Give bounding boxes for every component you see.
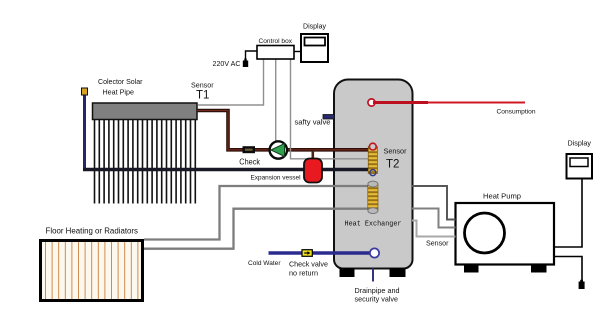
wire tank to pump 2 <box>412 209 456 228</box>
consumption pipe <box>373 101 428 104</box>
svg-text:T1: T1 <box>196 90 209 102</box>
radiator fins <box>46 242 138 299</box>
svg-text:security valve: security valve <box>355 295 399 304</box>
sensor T2 coil <box>368 147 377 174</box>
wire pump to plug right <box>554 257 582 282</box>
wire control box to sensor T1 <box>198 59 264 105</box>
svg-text:Expansion vessel: Expansion vessel <box>251 175 302 182</box>
tank foot left <box>340 268 355 277</box>
svg-text:220V AC: 220V AC <box>213 59 241 68</box>
drainpipe <box>372 269 374 282</box>
svg-text:Heat Exchanger: Heat Exchanger <box>345 221 402 229</box>
wire control box to sensor T2 <box>291 59 369 159</box>
plug 220V <box>243 61 248 68</box>
svg-text:T2: T2 <box>386 159 399 171</box>
heat pump foot right <box>531 265 547 273</box>
solar supply pipe maroon <box>197 111 370 150</box>
radiator loop pipe B <box>144 209 368 249</box>
svg-text:Sensor: Sensor <box>191 81 214 90</box>
solar supply pipe core highlight <box>197 111 370 150</box>
svg-text:safty valve: safty valve <box>295 118 331 127</box>
tank foot right <box>390 268 406 277</box>
svg-text:Check valve: Check valve <box>289 260 328 269</box>
svg-text:Colector Solar: Colector Solar <box>98 77 143 86</box>
wire 220V to control box <box>246 51 258 60</box>
heat pump fan <box>465 213 505 253</box>
svg-text:Consumption: Consumption <box>497 109 536 116</box>
heat pump foot left <box>464 265 479 273</box>
cold water check valve <box>302 250 312 257</box>
svg-text:Control box: Control box <box>259 38 293 45</box>
collector air vent cap <box>82 88 88 95</box>
wire tank to pump 3 <box>412 221 456 237</box>
pump <box>270 141 287 158</box>
wire control box to display <box>294 51 301 53</box>
expansion vessel <box>304 159 322 183</box>
display top <box>301 34 328 62</box>
svg-text:Display: Display <box>568 139 592 148</box>
svg-text:Check: Check <box>239 158 260 167</box>
radiator loop pipe A <box>144 186 368 240</box>
svg-text:Sensor: Sensor <box>426 239 449 248</box>
wire tank to pump 1 <box>412 186 456 220</box>
svg-text:Display: Display <box>303 22 326 31</box>
plug right <box>579 282 585 290</box>
check valve solar <box>243 146 256 153</box>
consumption port ring <box>368 99 375 106</box>
collector left pipe blue <box>83 95 86 170</box>
heat pump body <box>456 203 555 265</box>
heat exchanger coil <box>368 184 378 210</box>
safety valve <box>323 115 335 120</box>
collector tubes <box>95 120 196 204</box>
svg-text:Heat Pipe: Heat Pipe <box>103 88 135 97</box>
tank <box>334 80 413 269</box>
wire pump to display right <box>554 179 582 248</box>
cold water port ring <box>370 248 379 257</box>
solar collector header bar <box>93 103 198 120</box>
svg-text:Heat Pump: Heat Pump <box>483 192 521 201</box>
solar return pipe navy <box>83 168 370 172</box>
svg-text:no return: no return <box>289 269 318 278</box>
svg-text:Cold Water: Cold Water <box>248 260 281 267</box>
cold water pipe <box>269 251 372 255</box>
expansion vessel stem <box>311 151 314 160</box>
svg-text:Floor Heating or Radiators: Floor Heating or Radiators <box>46 227 139 236</box>
radiator <box>41 241 143 301</box>
control box <box>257 46 294 60</box>
wire control box to pump <box>275 59 277 141</box>
svg-text:Sensor: Sensor <box>384 147 408 156</box>
display right <box>567 154 593 179</box>
